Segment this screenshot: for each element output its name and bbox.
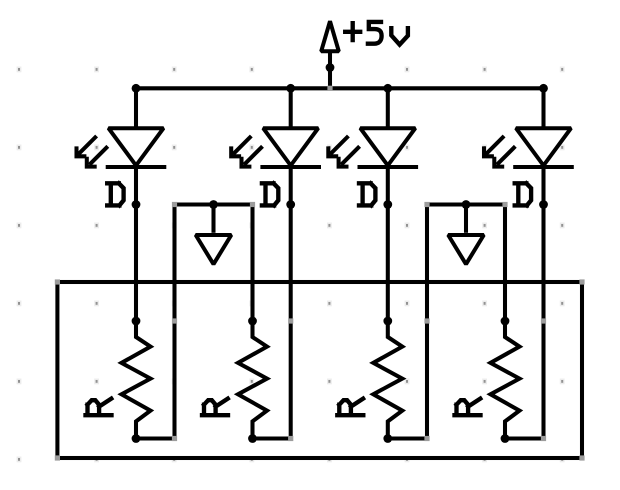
pin markers ground column 1 xyxy=(172,318,177,441)
component box outline xyxy=(57,282,582,458)
junction D2 cathode node xyxy=(286,200,295,209)
pin markers ground column 2 xyxy=(424,318,429,441)
wire ground column 2 left xyxy=(425,205,429,439)
wire ground tap 1 to resistor xyxy=(250,205,254,322)
pin markers box corners xyxy=(55,279,585,460)
wire R3 bottom link xyxy=(388,436,427,440)
wire bus to D2 anode xyxy=(289,88,293,128)
junction D1 cathode node xyxy=(132,200,141,209)
wire +5V bus xyxy=(136,86,544,90)
resistor R4 with label R xyxy=(455,317,520,443)
wire D1 cathode down xyxy=(134,167,138,321)
wire bus to D1 anode xyxy=(134,88,138,128)
wire R1 bottom link xyxy=(136,436,175,440)
junction bus node D4 xyxy=(539,84,548,93)
power symbol +5V xyxy=(321,21,339,51)
resistor R1 with label R xyxy=(86,317,151,443)
wire bus to D3 anode xyxy=(386,88,390,128)
resistor R3 with label R xyxy=(337,317,402,443)
junction ground tap 1 xyxy=(209,200,218,209)
resistor R2 with label R xyxy=(202,317,267,443)
wire D4 cathode down xyxy=(541,167,545,439)
pin markers ground tap 1 xyxy=(172,202,255,207)
wire power stub xyxy=(328,51,332,88)
pin markers D4 column xyxy=(541,318,546,441)
wire ground tap 2 to resistor xyxy=(503,205,507,322)
wire D2 cathode down xyxy=(289,167,293,439)
junction bus node D2 xyxy=(286,84,295,93)
wire D3 cathode down xyxy=(386,167,390,321)
LED D4 with label D xyxy=(484,128,574,205)
wire ground tap 2 xyxy=(427,202,505,206)
junction D3 cathode node xyxy=(383,200,392,209)
LED D1 with label D xyxy=(77,128,167,205)
pin marker power on bus xyxy=(327,86,332,91)
pin markers D2 column xyxy=(288,318,293,441)
wire ground tap 1 xyxy=(175,202,253,206)
junction D4 cathode node xyxy=(539,200,548,209)
wire bus to D4 anode xyxy=(541,88,545,128)
LED D2 with label D xyxy=(231,128,321,205)
wire ground column 1 left xyxy=(172,205,176,439)
pin markers ground tap 2 xyxy=(424,202,507,207)
ground symbol 1 xyxy=(196,205,232,265)
junction bus node D1 xyxy=(132,84,141,93)
junction power stub xyxy=(326,63,335,72)
ground symbol 2 xyxy=(448,205,484,265)
junction ground tap 2 xyxy=(462,200,471,209)
LED D3 with label D xyxy=(328,128,418,205)
wire R2 bottom link xyxy=(253,436,291,440)
junction bus node D3 xyxy=(383,84,392,93)
wire R4 bottom link xyxy=(505,436,544,440)
label +5v xyxy=(345,22,408,45)
